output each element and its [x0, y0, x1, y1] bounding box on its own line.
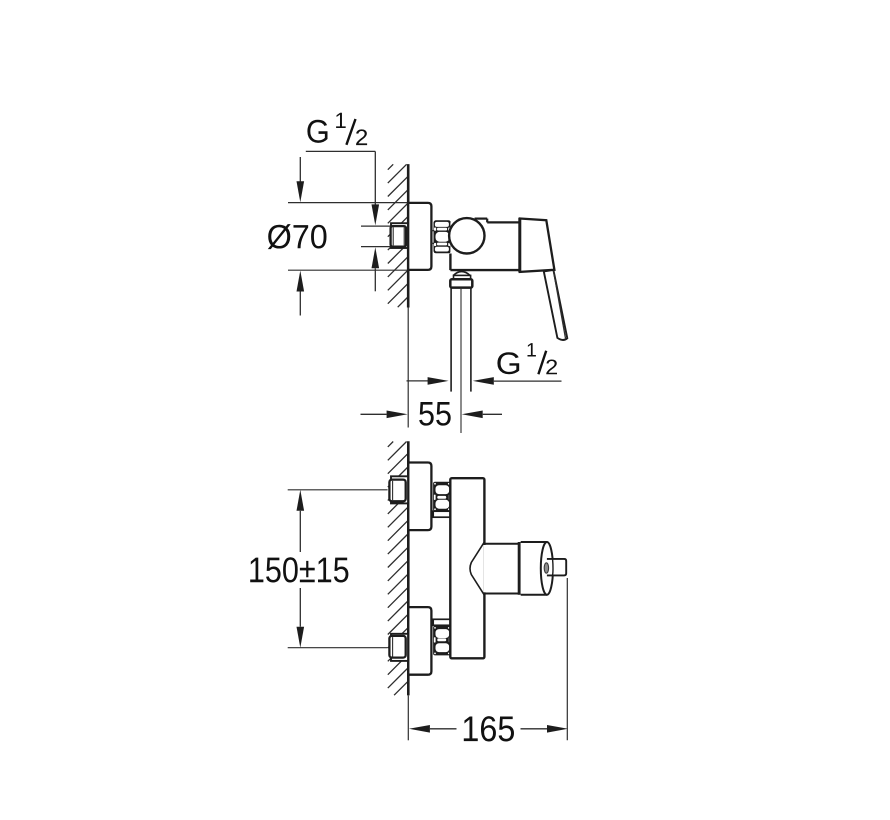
arrow O70 top [299, 157, 301, 183]
G1/2 leader bracket [306, 150, 376, 152]
outlet neck (top view) [454, 275, 471, 279]
55 dim line right [462, 411, 483, 419]
label 55 [419, 402, 451, 426]
wall (top view) [407, 164, 410, 307]
wall hatching (bottom view) [388, 442, 393, 447]
valve body (top view) [450, 222, 519, 270]
outlet shoulder (top view) [453, 272, 470, 276]
label O70 [268, 224, 327, 249]
extension line rosette bottom (O70) [288, 269, 408, 271]
cartridge cap [521, 543, 547, 594]
arrow O70 bottom [297, 271, 305, 292]
55 dim line left [361, 413, 387, 415]
165 dim line [409, 725, 430, 733]
union thread gap lines (top view) [431, 230, 434, 232]
lower union tailpiece [433, 619, 450, 625]
extension line lower union [288, 647, 388, 649]
wall surface extension line [407, 308, 409, 428]
G1/2 pipe dim right [473, 377, 494, 385]
upper union nut [433, 482, 451, 512]
upper backplate behind wall [391, 476, 408, 503]
backplate behind wall (top view) [391, 223, 408, 248]
150 dim line upper [297, 490, 305, 511]
label 150+-15 [250, 557, 348, 582]
cap ellipse arc over stub [552, 560, 554, 575]
150 dim line lower [299, 588, 301, 627]
165 extension line from stub [566, 578, 568, 740]
shower outlet pipe [450, 288, 452, 392]
label G1/2 (pipe) [497, 352, 519, 374]
union nut (top view) [434, 220, 451, 253]
fitting extension line B [361, 246, 390, 248]
lever handle (top view) [544, 270, 568, 340]
mixer body (bottom view) [450, 478, 484, 658]
arrow to fitting top [372, 204, 380, 225]
arrow to fitting bottom [372, 247, 380, 268]
upper G1/2 wall fitting [389, 480, 405, 502]
wall hatching (top view) [388, 164, 393, 169]
cartridge housing [483, 545, 518, 592]
collar on body (top view) [475, 218, 488, 220]
extension line rosette top (O70) [288, 202, 429, 204]
outlet ring nut (top view) [450, 279, 472, 287]
cap end ellipse [541, 542, 553, 595]
cartridge step ring [518, 542, 521, 595]
wall (bottom view) [407, 441, 410, 695]
G1/2 pipe dim left [407, 380, 430, 382]
label 165 [464, 716, 514, 741]
lower union nut [433, 626, 451, 656]
temperature stub [547, 559, 566, 576]
lower escutcheon rosette [408, 607, 431, 675]
ball joint (top view) [449, 218, 484, 253]
lower G1/2 wall fitting [389, 636, 405, 658]
lower backplate behind wall [391, 634, 408, 661]
upper union tailpiece [433, 511, 450, 517]
fitting extension line A [361, 225, 390, 227]
pipe centerline [460, 288, 462, 433]
wall extension line (165 dim) [407, 695, 409, 740]
extension line upper union [288, 489, 388, 491]
G1/2 wall fitting (top view) [391, 226, 406, 247]
escutcheon rosette (top view) [408, 203, 431, 270]
cone transition curve [470, 542, 484, 595]
handle hub (top view) [520, 219, 555, 272]
stub bore (grey) [544, 563, 548, 573]
upper escutcheon rosette [408, 463, 431, 531]
label G1/2 (top) [307, 120, 327, 143]
